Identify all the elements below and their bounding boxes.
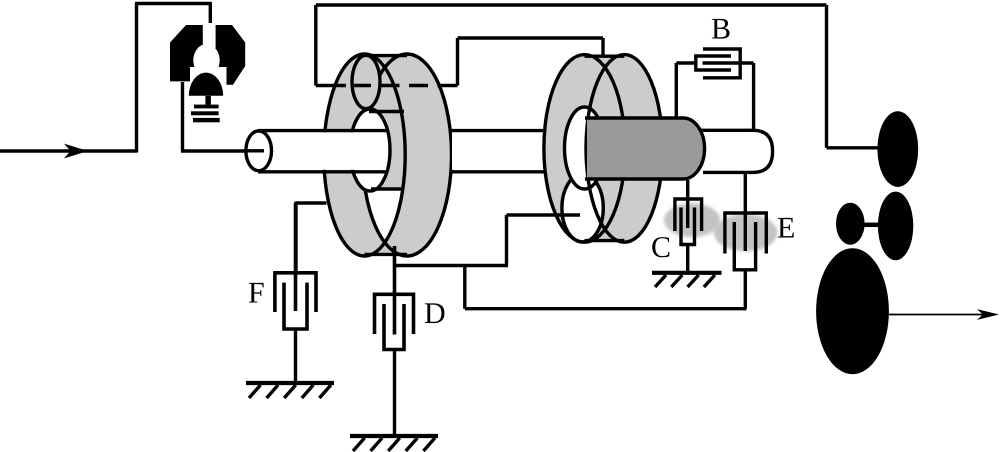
gear G4: large output black ellipse [816,248,889,374]
svg-text:B: B [711,13,731,46]
damper D: inner cup [384,304,404,350]
wire: top main horizontal [316,3,827,6]
wire: drop into engine slot [209,4,212,48]
wire: drum1 to damper F [296,201,327,204]
drum1: right ellipse outline [363,54,452,256]
shaft: middle segment top edge [449,129,546,132]
wire: riser at x506 [505,215,508,266]
ground under C: hatches [655,275,715,287]
wire: drop at x464.8 [463,266,466,309]
shaft: left end cap ellipse [246,131,272,171]
damper B: piston rod [703,61,754,64]
engine icon: white slot [203,23,216,48]
ground under F: hatches [249,385,331,398]
wire: top-left horizontal to engine icon [135,2,212,5]
wire: drop onto drum2 rim [601,38,604,60]
wire: engine to shaft [181,149,259,152]
wire: junction horizontal to D rod [395,264,509,267]
damper B: outer shell (opens left) [703,49,740,78]
drum1: top rim tangent [365,54,408,57]
damper F: lower rod [294,329,297,382]
damper E: outer shell [725,213,766,254]
damper C: outer shell [675,199,702,231]
shaft: middle segment bottom edge [452,170,547,173]
wire: input line from left edge [0,149,137,152]
damper F: piston rod [294,203,298,311]
ground under D: bar [350,434,438,438]
drum2: right ellipse outline [586,55,663,243]
svg-text:F: F [248,277,265,310]
damper C: lower rod [686,245,689,272]
damper E: piston rod from shaft [744,173,747,251]
hub: bottom edge [585,177,683,180]
highlight blob behind C [664,203,720,237]
hub: top edge [585,116,683,119]
shaft: left segment white body [259,132,386,170]
damper B: left wire from hub [676,63,694,119]
wire stub into cap center [246,149,264,152]
dashed line through drum1 [316,84,346,87]
shaft: right segment white body with round end [701,130,773,172]
output arrow line [888,314,995,316]
wire: long bottom run to damper E [465,307,747,310]
wire: riser dashed level to upper link [456,38,459,86]
damper F: inner cup [284,283,307,329]
drum1: white V notch at bottom [365,189,403,243]
drum2: bottom rim tangent [585,239,625,242]
highlight blob behind E [714,214,778,251]
engine icon: black body octagon [170,25,245,85]
drum2: top rim tangent [585,55,625,58]
wire: link over to drum2 [458,36,604,39]
drum2: left ellipse outline [544,55,625,243]
drum1: bore inner top line [369,110,404,113]
shaft: middle segment white body [452,132,546,170]
ground under C: bar [652,271,722,275]
engine icon: black dome [189,73,223,96]
drum2: inner bore white hole [565,107,605,189]
drum1: bore inner bottom line [371,187,403,190]
shaft: left segment top edge [258,129,387,132]
damper B: inner cup (opens right) [696,56,731,70]
hub: dark gray cylinder through drum2 [587,118,705,179]
engine icon: bar 1 [194,105,219,109]
gear G2: black ellipse below G1 [878,192,913,261]
drum1: bottom rim tangent [365,253,408,256]
engine icon: stub below dome [205,96,211,105]
damper D: piston rod from drum1 [393,246,397,335]
drum2: gray ring silhouette [544,55,663,243]
damper E: lower rod [744,270,747,309]
drum1: small top cross-section ellipse [352,55,380,108]
gear G3-G2 connector [863,223,879,228]
shaft: left segment bottom edge [258,170,386,173]
ground under F: bar [246,381,334,385]
engine icon: bar 3 [193,118,220,122]
engine icon: bar 2 [191,111,219,115]
wire: into gear G1 [827,146,881,149]
svg-text:E: E [777,212,795,245]
wire: drop to damper F [294,202,297,273]
damper D: outer shell [375,294,414,334]
wire: engine left foot down [181,82,184,151]
drum1: left ellipse outline [324,54,405,256]
damper C: inner cup [681,208,695,245]
drum1: inner bore white hole [350,109,390,191]
wire: right riser down to gear [825,5,828,148]
gear G3: small black ellipse left [836,203,865,245]
hub: right cap outline [683,118,705,179]
input arrowhead [64,144,88,159]
damper D: lower rod [393,350,396,437]
damper E: inner cup [734,222,755,270]
ground under D: hatches [353,438,435,451]
wire: into drum2 bottom ellipse center [507,213,581,216]
svg-text:C: C [651,231,671,264]
svg-text:D: D [424,297,446,330]
engine icon: white cavity [193,44,219,77]
engine icon: white gap between feet [190,67,227,88]
damper B: right wire down to shaft [752,63,755,130]
damper C: piston rod from hub [686,180,689,228]
wire: left riser up [135,4,138,153]
gear G1: top black ellipse [877,111,918,187]
drum1: gray ring silhouette [324,54,452,256]
wire: riser from top wire to drum1 dashed level [314,5,317,86]
damper F: outer shell [275,273,316,312]
output arrowhead [977,309,999,320]
drum2: small bottom cross-section ellipse [562,174,603,242]
